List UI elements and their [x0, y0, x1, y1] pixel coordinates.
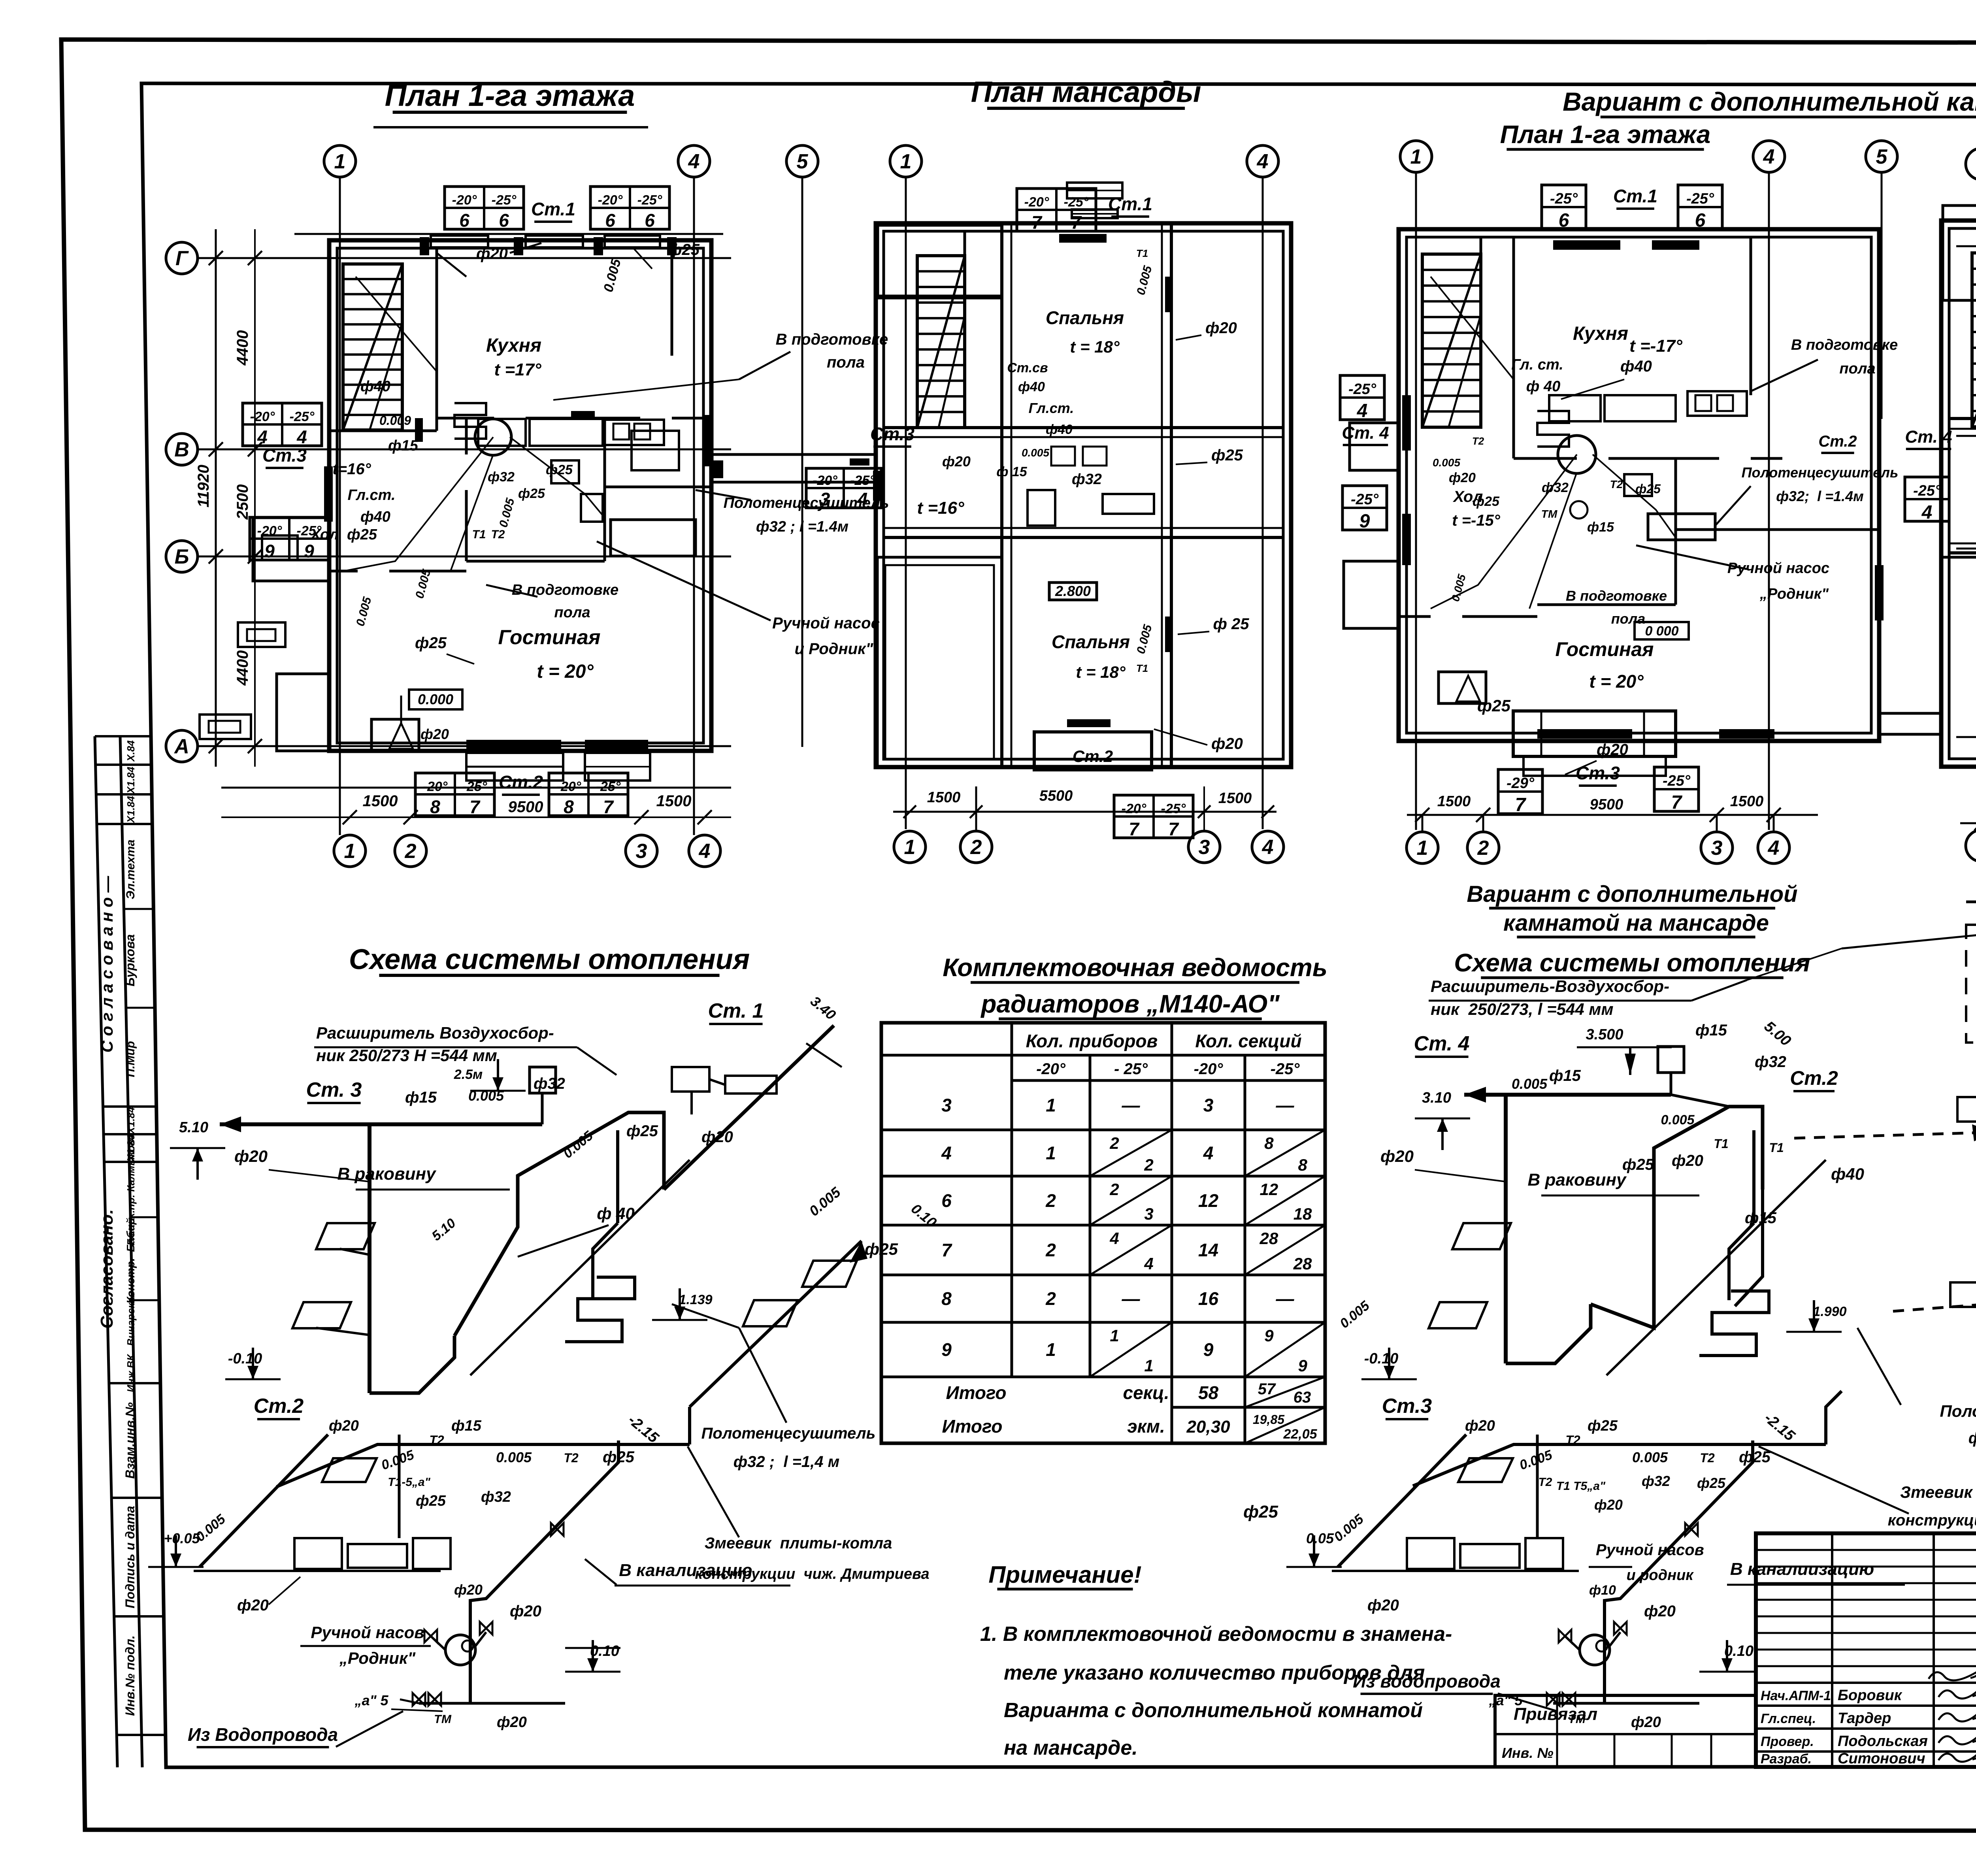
svg-text:Хол ф25: Хол ф25 — [310, 526, 377, 543]
svg-text:1500: 1500 — [363, 792, 398, 810]
svg-text:—: — — [1276, 1288, 1295, 1309]
svg-text:-25°: -25° — [1064, 194, 1089, 209]
svg-text:ф15: ф15 — [1549, 1067, 1581, 1084]
svg-text:ТМ: ТМ — [434, 1713, 452, 1726]
svg-text:Ст. 3: Ст. 3 — [306, 1078, 362, 1101]
svg-text:4400: 4400 — [234, 330, 251, 366]
svg-text:ф32: ф32 — [481, 1489, 511, 1505]
svg-text:Расширитель Воздухосбор-: Расширитель Воздухосбор- — [316, 1024, 554, 1042]
svg-text:3: 3 — [1199, 836, 1210, 859]
svg-text:Ст. 4: Ст. 4 — [1414, 1032, 1470, 1055]
svg-text:ф20: ф20 — [454, 1582, 483, 1598]
svg-text:9: 9 — [304, 541, 314, 562]
svg-text:Т2: Т2 — [1565, 1433, 1580, 1447]
svg-text:ф 25: ф 25 — [1213, 615, 1250, 633]
svg-text:0.05: 0.05 — [1306, 1530, 1334, 1546]
svg-text:ф15: ф15 — [388, 437, 419, 454]
svg-text:Б: Б — [175, 545, 189, 568]
svg-text:ф20: ф20 — [1205, 319, 1237, 337]
svg-text:Подпись и дата: Подпись и дата — [123, 1506, 137, 1608]
svg-text:Констр. Бабий: Констр. Бабий — [124, 1218, 137, 1304]
svg-text:Полотенцесушитель: Полотенцесушитель — [1940, 1402, 1976, 1420]
svg-text:-25°: -25° — [1686, 190, 1714, 207]
svg-text:ф20: ф20 — [476, 245, 508, 262]
svg-text:ф32: ф32 — [1755, 1053, 1786, 1071]
svg-text:0.005: 0.005 — [1632, 1449, 1668, 1465]
svg-text:22,05: 22,05 — [1283, 1427, 1317, 1442]
svg-text:Т2: Т2 — [1700, 1451, 1715, 1465]
svg-text:-25°: -25° — [1351, 491, 1379, 508]
svg-text:0.005: 0.005 — [601, 257, 624, 294]
svg-text:-2.15: -2.15 — [625, 1412, 662, 1446]
svg-text:Ситонович: Ситонович — [1838, 1750, 1925, 1767]
svg-text:8: 8 — [1298, 1156, 1307, 1174]
svg-text:Ст.2: Ст.2 — [1073, 747, 1113, 765]
svg-text:теле указано количество прибор: теле указано количество приборов для — [1004, 1661, 1425, 1684]
svg-text:4: 4 — [296, 427, 307, 447]
svg-text:1: 1 — [1144, 1356, 1153, 1375]
svg-text:2: 2 — [1109, 1134, 1119, 1152]
svg-text:57: 57 — [1258, 1380, 1276, 1398]
svg-text:Инж.ВК. Винарская: Инж.ВК. Винарская — [125, 1291, 137, 1392]
svg-text:Кухня: Кухня — [486, 335, 541, 356]
svg-text:-25°: -25° — [1271, 1060, 1300, 1078]
svg-text:—: — — [1276, 1095, 1295, 1116]
svg-text:2: 2 — [1109, 1180, 1119, 1199]
svg-text:ф25: ф25 — [1635, 482, 1661, 496]
svg-text:Г: Г — [175, 247, 189, 270]
svg-text:2: 2 — [970, 836, 982, 859]
svg-text:ф32: ф32 — [1542, 480, 1569, 495]
svg-text:Ст.1: Ст.1 — [1613, 186, 1657, 206]
svg-text:Ст.2: Ст.2 — [254, 1395, 304, 1418]
svg-text:ф20: ф20 — [701, 1128, 733, 1146]
svg-text:ф15: ф15 — [405, 1089, 437, 1106]
svg-text:0.005: 0.005 — [354, 595, 374, 628]
svg-text:ф25: ф25 — [1477, 696, 1511, 715]
svg-text:Ст.2: Ст.2 — [1790, 1067, 1838, 1089]
svg-text:ник 250/273 Н =544 мм: ник 250/273 Н =544 мм — [316, 1046, 497, 1065]
svg-text:0 000: 0 000 — [1645, 624, 1678, 639]
svg-text:28: 28 — [1293, 1254, 1312, 1273]
svg-text:Зтеевик плиты-котла: Зтеевик плиты-котла — [1900, 1483, 1976, 1501]
svg-text:1: 1 — [1417, 837, 1428, 860]
svg-text:1: 1 — [334, 150, 346, 173]
svg-text:Т1-5„а": Т1-5„а" — [388, 1476, 430, 1489]
svg-text:3: 3 — [1144, 1205, 1153, 1223]
svg-text:4: 4 — [1144, 1254, 1153, 1273]
svg-text:2: 2 — [1144, 1156, 1153, 1174]
svg-text:План 1-га этажа: План 1-га этажа — [385, 79, 635, 113]
svg-text:„Родник": „Родник" — [1759, 586, 1829, 602]
svg-text:t = 18°: t = 18° — [1070, 337, 1120, 356]
svg-text:4: 4 — [1357, 400, 1368, 421]
svg-text:Вариант с дополнительной камна: Вариант с дополнительной камнатой на ман… — [1563, 87, 1976, 116]
svg-text:Эл.техта: Эл.техта — [124, 839, 137, 899]
svg-text:0.10: 0.10 — [590, 1643, 619, 1659]
svg-text:Т2: Т2 — [1538, 1476, 1552, 1489]
svg-text:5: 5 — [797, 150, 809, 173]
svg-text:ф20: ф20 — [1465, 1418, 1495, 1434]
svg-text:0.005: 0.005 — [1134, 264, 1155, 296]
svg-text:9: 9 — [1359, 511, 1370, 532]
svg-text:ф20: ф20 — [1449, 470, 1476, 485]
svg-text:ф 32; l =1.4 м: ф 32; l =1.4 м — [1968, 1429, 1976, 1447]
svg-text:2: 2 — [1045, 1190, 1056, 1211]
svg-text:Т2: Т2 — [1472, 435, 1484, 447]
svg-text:ф20: ф20 — [1644, 1603, 1676, 1620]
svg-text:0.005: 0.005 — [497, 496, 517, 529]
svg-text:4: 4 — [257, 427, 268, 447]
svg-text:7: 7 — [603, 797, 614, 817]
svg-text:0.005: 0.005 — [806, 1184, 844, 1219]
svg-text:1500: 1500 — [1730, 793, 1764, 810]
svg-text:ф20: ф20 — [1380, 1147, 1414, 1165]
svg-text:Инв.№ подл.: Инв.№ подл. — [123, 1635, 137, 1716]
svg-text:0.009: 0.009 — [379, 413, 411, 428]
svg-text:-0.10: -0.10 — [1364, 1350, 1399, 1367]
svg-text:2: 2 — [1045, 1288, 1056, 1309]
svg-text:1: 1 — [904, 836, 916, 859]
svg-text:4: 4 — [1921, 502, 1933, 523]
svg-text:ф15: ф15 — [451, 1418, 482, 1434]
svg-text:В канализацию: В канализацию — [619, 1561, 752, 1580]
svg-text:Ст.2: Ст.2 — [1818, 433, 1857, 450]
svg-text:Из Водопровода: Из Водопровода — [188, 1724, 338, 1745]
svg-text:5.10: 5.10 — [179, 1119, 208, 1136]
svg-text:-25°: -25° — [1161, 801, 1186, 816]
svg-text:секц.: секц. — [1123, 1382, 1169, 1403]
svg-text:ф25: ф25 — [1697, 1475, 1726, 1491]
svg-text:7: 7 — [1031, 212, 1043, 233]
svg-text:ф25: ф25 — [518, 486, 545, 501]
svg-text:Х1.84: Х1.84 — [125, 766, 137, 794]
svg-text:ф20: ф20 — [1672, 1152, 1703, 1169]
svg-text:4: 4 — [1257, 150, 1269, 173]
svg-text:-0.10: -0.10 — [228, 1350, 262, 1367]
svg-text:63: 63 — [1293, 1389, 1311, 1406]
svg-text:ф 40: ф 40 — [1526, 378, 1560, 395]
svg-text:радиаторов „М140-АО": радиаторов „М140-АО" — [980, 990, 1280, 1018]
svg-text:конструкции шиж. Дмитриева: конструкции шиж. Дмитриева — [1888, 1512, 1976, 1529]
svg-text:Расширитель-Воздухосбор-: Расширитель-Воздухосбор- — [1431, 977, 1669, 996]
svg-text:Согласовано:: Согласовано: — [97, 1209, 117, 1329]
svg-text:3: 3 — [941, 1095, 952, 1116]
svg-text:0.10: 0.10 — [1724, 1643, 1754, 1659]
svg-text:пола: пола — [827, 354, 865, 371]
svg-text:5.10: 5.10 — [429, 1216, 458, 1244]
svg-text:„Родник": „Родник" — [339, 1649, 416, 1667]
svg-text:-20°: -20° — [1194, 1060, 1224, 1078]
svg-text:3.40: 3.40 — [807, 993, 839, 1023]
svg-text:3: 3 — [1711, 837, 1723, 860]
svg-text:6: 6 — [941, 1190, 952, 1211]
svg-text:и родник: и родник — [1626, 1567, 1694, 1584]
svg-text:Ст.св: Ст.св — [1007, 360, 1048, 375]
svg-text:ф20: ф20 — [1211, 735, 1243, 752]
svg-text:ф20: ф20 — [497, 1714, 527, 1731]
svg-text:Т2: Т2 — [429, 1433, 444, 1447]
svg-text:1500: 1500 — [656, 792, 692, 810]
svg-text:ф40: ф40 — [1046, 422, 1073, 437]
svg-text:0.005: 0.005 — [1433, 456, 1460, 469]
svg-text:1: 1 — [900, 150, 912, 173]
svg-text:Т2: Т2 — [491, 528, 505, 541]
svg-text:1: 1 — [1410, 145, 1422, 168]
svg-text:Вариант с дополнительной: Вариант с дополнительной — [1467, 881, 1797, 907]
svg-text:1. В комплектовочной ведомости: 1. В комплектовочной ведомости в знамена… — [980, 1623, 1452, 1646]
svg-text:ф 15: ф 15 — [996, 464, 1027, 479]
svg-text:7: 7 — [1071, 212, 1082, 233]
svg-text:В подготовке: В подготовке — [1791, 337, 1898, 353]
svg-text:0.005: 0.005 — [1331, 1511, 1367, 1545]
svg-text:Х1.84: Х1.84 — [125, 796, 137, 823]
svg-text:ф40: ф40 — [1018, 379, 1045, 394]
svg-text:-25°: -25° — [1663, 773, 1691, 789]
svg-text:9: 9 — [1264, 1326, 1274, 1345]
svg-text:t =-17°: t =-17° — [1629, 336, 1682, 356]
svg-text:Т1: Т1 — [1714, 1137, 1728, 1151]
svg-text:ф20: ф20 — [1594, 1497, 1623, 1513]
svg-text:4: 4 — [1109, 1229, 1119, 1248]
svg-text:ф25: ф25 — [1622, 1156, 1654, 1173]
svg-text:3.10: 3.10 — [1422, 1090, 1451, 1106]
svg-text:7: 7 — [1671, 792, 1683, 813]
svg-text:ф32 ; l =1,4 м: ф32 ; l =1,4 м — [733, 1453, 839, 1471]
svg-text:9500: 9500 — [508, 798, 543, 816]
svg-text:Гостиная: Гостиная — [1556, 638, 1654, 660]
svg-text:2: 2 — [1045, 1240, 1056, 1260]
svg-text:экм.: экм. — [1127, 1416, 1165, 1437]
svg-text:-25°: -25° — [637, 192, 662, 207]
svg-text:18: 18 — [1293, 1205, 1312, 1223]
svg-text:3: 3 — [1203, 1095, 1214, 1116]
svg-text:1.139: 1.139 — [679, 1292, 712, 1307]
svg-text:12: 12 — [1198, 1190, 1219, 1211]
svg-text:Гостиная: Гостиная — [498, 626, 601, 649]
svg-text:20,30: 20,30 — [1186, 1417, 1230, 1437]
svg-text:14: 14 — [1198, 1240, 1218, 1260]
svg-text:камнатой на мансарде: камнатой на мансарде — [1503, 910, 1769, 936]
svg-text:ф15: ф15 — [1695, 1022, 1727, 1039]
svg-text:Ст.1: Ст.1 — [1108, 194, 1152, 214]
svg-text:и Родник": и Родник" — [795, 640, 874, 658]
svg-text:0.005: 0.005 — [1337, 1298, 1373, 1331]
svg-text:-25°: -25° — [1348, 381, 1376, 398]
svg-text:1.990: 1.990 — [1813, 1304, 1846, 1319]
svg-text:t =-15°: t =-15° — [1452, 512, 1501, 529]
svg-text:1: 1 — [1110, 1326, 1119, 1345]
svg-text:Кол. приборов: Кол. приборов — [1026, 1031, 1158, 1051]
svg-text:58: 58 — [1198, 1382, 1219, 1403]
svg-text:t =17°: t =17° — [494, 360, 541, 379]
svg-text:Ручной насос: Ручной насос — [772, 615, 880, 632]
svg-text:19,85: 19,85 — [1253, 1412, 1285, 1427]
svg-text:пола: пола — [554, 604, 590, 621]
svg-text:t=16°: t=16° — [332, 460, 371, 478]
svg-text:—: — — [1122, 1095, 1141, 1116]
svg-text:4: 4 — [688, 150, 700, 173]
svg-text:-2.15: -2.15 — [1761, 1410, 1798, 1444]
svg-text:0.005: 0.005 — [1661, 1112, 1695, 1127]
svg-text:В каналиизацию: В каналиизацию — [1730, 1559, 1874, 1579]
svg-text:Ст.1: Ст.1 — [531, 199, 575, 219]
svg-text:Провер.: Провер. — [1761, 1734, 1814, 1749]
svg-text:6: 6 — [605, 210, 615, 231]
svg-text:ник 250/273, l =544 мм: ник 250/273, l =544 мм — [1431, 1000, 1614, 1018]
svg-text:9: 9 — [264, 541, 275, 562]
svg-text:Х1.84: Х1.84 — [125, 1107, 137, 1134]
svg-text:0.005: 0.005 — [1022, 447, 1049, 459]
svg-text:4: 4 — [699, 840, 711, 863]
svg-text:Змеевик плиты-котла: Змеевик плиты-котла — [705, 1535, 892, 1552]
svg-text:Схема системы отопления: Схема системы отопления — [1454, 948, 1810, 977]
svg-text:9: 9 — [1203, 1339, 1214, 1360]
svg-text:Т2: Т2 — [564, 1451, 579, 1465]
svg-text:2.5м: 2.5м — [454, 1067, 483, 1082]
svg-text:-25°: -25° — [850, 473, 875, 488]
svg-text:ф20: ф20 — [510, 1603, 541, 1620]
svg-text:С о г л а с о в а н о —: С о г л а с о в а н о — — [98, 875, 116, 1052]
svg-text:4: 4 — [1768, 837, 1780, 860]
svg-text:В раковину: В раковину — [337, 1164, 437, 1184]
svg-text:Полотенцесушитель: Полотенцесушитель — [701, 1425, 876, 1442]
svg-text:на мансарде.: на мансарде. — [1004, 1736, 1138, 1759]
svg-text:ф25: ф25 — [416, 1493, 446, 1509]
svg-text:2: 2 — [1477, 837, 1489, 860]
svg-text:8: 8 — [430, 797, 440, 817]
svg-text:пола: пола — [1839, 360, 1875, 377]
svg-text:Боровик: Боровик — [1838, 1687, 1902, 1704]
svg-text:Ручной насов: Ручной насов — [1596, 1541, 1704, 1559]
svg-text:0.005: 0.005 — [1134, 623, 1155, 655]
svg-text:В подготовке: В подготовке — [776, 331, 888, 348]
svg-text:ф25: ф25 — [415, 634, 447, 652]
svg-text:9: 9 — [1298, 1356, 1307, 1375]
svg-text:t = 20°: t = 20° — [1589, 671, 1644, 692]
svg-text:-25°: -25° — [1550, 190, 1578, 207]
svg-text:-25°: -25° — [492, 192, 517, 207]
svg-text:Полотенцесушитель: Полотенцесушитель — [724, 495, 889, 511]
svg-text:6: 6 — [499, 210, 509, 231]
svg-text:7: 7 — [469, 797, 481, 817]
svg-text:-20°: -20° — [423, 779, 448, 794]
svg-text:Т1: Т1 — [472, 528, 486, 541]
svg-text:8: 8 — [941, 1288, 952, 1309]
svg-text:Гл. ст.: Гл. ст. — [1511, 356, 1563, 373]
svg-text:А: А — [173, 735, 189, 758]
svg-text:„а" 5: „а" 5 — [354, 1692, 388, 1708]
svg-text:ф32: ф32 — [1072, 471, 1102, 488]
svg-text:ф40: ф40 — [360, 378, 390, 395]
svg-text:0.005: 0.005 — [1449, 573, 1468, 603]
svg-text:2500: 2500 — [234, 485, 251, 520]
svg-text:Полотенцесушитель: Полотенцесушитель — [1742, 464, 1899, 481]
svg-text:ф25: ф25 — [1243, 1502, 1278, 1522]
svg-text:План 1-га этажа: План 1-га этажа — [1500, 120, 1711, 149]
svg-text:Взам.инв.№: Взам.инв.№ — [123, 1402, 137, 1479]
svg-text:Ст.3: Ст.3 — [262, 445, 307, 466]
svg-text:1: 1 — [1046, 1095, 1056, 1116]
svg-text:6: 6 — [1695, 210, 1706, 231]
svg-text:Примечание!: Примечание! — [988, 1561, 1141, 1588]
svg-text:-20°: -20° — [257, 523, 282, 538]
svg-text:9: 9 — [941, 1339, 952, 1360]
svg-text:-20°: -20° — [598, 192, 623, 207]
svg-text:-29°: -29° — [1507, 775, 1535, 792]
svg-text:7: 7 — [1129, 819, 1140, 839]
svg-text:11920: 11920 — [195, 465, 212, 507]
svg-text:ф20: ф20 — [234, 1147, 268, 1165]
svg-text:П.Мир: П.Мир — [124, 1041, 137, 1077]
svg-text:28: 28 — [1260, 1229, 1278, 1248]
svg-text:t = 18°: t = 18° — [1076, 663, 1126, 681]
svg-text:В подготовке: В подготовке — [512, 582, 618, 598]
svg-text:2.800: 2.800 — [1055, 583, 1091, 599]
svg-text:ф15: ф15 — [1587, 520, 1614, 535]
svg-text:ф15: ф15 — [1745, 1209, 1777, 1227]
svg-text:Привязал: Привязал — [1514, 1704, 1597, 1724]
svg-text:1: 1 — [1046, 1143, 1056, 1163]
svg-text:ф25: ф25 — [1473, 494, 1500, 509]
svg-text:Ст. 1: Ст. 1 — [708, 999, 764, 1022]
svg-text:Инв. №: Инв. № — [1502, 1745, 1554, 1761]
svg-text:-25°: -25° — [290, 409, 315, 424]
svg-text:Ст.3: Ст.3 — [1576, 763, 1620, 783]
svg-text:1500: 1500 — [1218, 790, 1252, 807]
svg-text:Ст.3: Ст.3 — [1382, 1395, 1432, 1418]
svg-text:Т1: Т1 — [1769, 1141, 1784, 1155]
svg-text:7: 7 — [1515, 794, 1527, 815]
svg-text:1500: 1500 — [927, 789, 961, 806]
svg-text:пола: пола — [1611, 611, 1645, 627]
svg-text:4: 4 — [1203, 1143, 1214, 1163]
svg-text:1: 1 — [344, 840, 356, 863]
svg-text:ф20: ф20 — [420, 726, 449, 742]
svg-text:ТМ: ТМ — [1541, 508, 1557, 520]
svg-text:Ст. 4: Ст. 4 — [1905, 427, 1952, 447]
svg-text:ф20: ф20 — [1597, 741, 1628, 758]
svg-text:ф40: ф40 — [1620, 358, 1652, 375]
svg-text:ф20: ф20 — [237, 1597, 269, 1614]
svg-text:12: 12 — [1260, 1180, 1278, 1199]
svg-text:Тардер: Тардер — [1838, 1710, 1891, 1727]
svg-text:План мансарды: План мансарды — [971, 75, 1201, 108]
svg-text:ф20: ф20 — [942, 453, 971, 469]
svg-text:Ст.2: Ст.2 — [499, 772, 543, 792]
svg-text:t = 20°: t = 20° — [537, 661, 594, 682]
svg-text:1500: 1500 — [1437, 793, 1471, 810]
svg-text:ф40: ф40 — [360, 509, 390, 525]
svg-text:0.005: 0.005 — [468, 1088, 504, 1104]
svg-text:8: 8 — [1264, 1134, 1274, 1152]
svg-text:5: 5 — [1876, 145, 1888, 168]
svg-text:Х.84: Х.84 — [125, 740, 137, 762]
svg-text:t =16°: t =16° — [917, 498, 964, 518]
svg-text:4: 4 — [941, 1143, 952, 1163]
svg-text:Т1: Т1 — [1136, 662, 1148, 674]
svg-text:-20°: -20° — [1024, 194, 1049, 209]
svg-text:Нач.АПМ-1: Нач.АПМ-1 — [1761, 1688, 1831, 1703]
svg-text:ф32: ф32 — [534, 1075, 565, 1092]
svg-text:Спальня: Спальня — [1046, 307, 1124, 328]
svg-text:4: 4 — [1763, 145, 1775, 168]
svg-text:7: 7 — [1168, 819, 1179, 839]
svg-text:ф25: ф25 — [626, 1122, 658, 1140]
svg-text:Т1: Т1 — [1136, 247, 1148, 259]
svg-text:Т2: Т2 — [1610, 478, 1623, 490]
svg-text:Гл.спец.: Гл.спец. — [1761, 1711, 1816, 1726]
